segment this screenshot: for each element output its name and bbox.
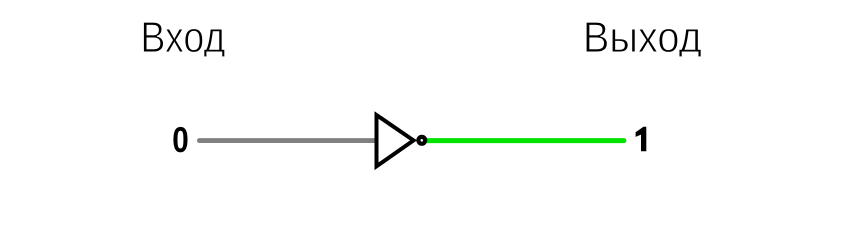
svg-text:Выход: Выход	[583, 14, 702, 62]
input wire (logic 0, gray)	[199, 138, 376, 143]
svg-text:0: 0	[172, 119, 189, 160]
output wire (logic 1, green)	[426, 138, 624, 143]
svg-text:Вход: Вход	[140, 14, 225, 62]
inverter U1 bubble	[418, 137, 425, 144]
inverter U1 triangle	[377, 115, 414, 166]
output value label "1"	[636, 127, 647, 152]
